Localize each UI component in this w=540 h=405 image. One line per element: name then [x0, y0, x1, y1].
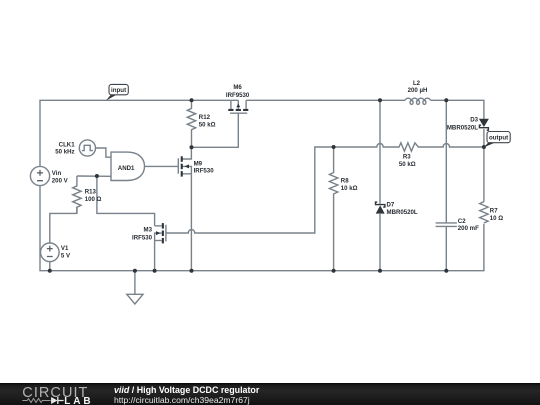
- wire top rail right (M6 drain to D3 corner): [246, 99, 405, 101]
- junction dots: [190, 98, 194, 102]
- transistor M3 stubs: [155, 225, 162, 227]
- wire top rail after L2: [431, 100, 484, 119]
- transistor M3 channel bars: [162, 223, 164, 229]
- svg-text:Vin: Vin: [52, 170, 62, 177]
- svg-text:R7: R7: [490, 208, 498, 215]
- svg-text:LAB: LAB: [64, 396, 93, 405]
- wire V1 bottom: [49, 262, 51, 271]
- svg-text:IRF530: IRF530: [132, 235, 153, 242]
- svg-text:MBR0520L: MBR0520L: [447, 124, 478, 131]
- svg-text:10 kΩ: 10 kΩ: [341, 185, 358, 192]
- svg-text:50 kHz: 50 kHz: [55, 149, 74, 156]
- wire output node to R7: [483, 147, 485, 202]
- svg-text:M3: M3: [144, 227, 153, 234]
- svg-text:50 kΩ: 50 kΩ: [399, 161, 416, 168]
- svg-text:R3: R3: [403, 153, 411, 160]
- input flag: [106, 84, 128, 100]
- diode D3 schottky bar: [479, 125, 488, 130]
- svg-text:C2: C2: [458, 218, 466, 225]
- wire D3 lead to output node: [483, 129, 485, 147]
- svg-text:D7: D7: [387, 202, 395, 209]
- svg-text:R13: R13: [85, 189, 97, 196]
- svg-text:50 kΩ: 50 kΩ: [199, 122, 216, 129]
- svg-text:200 µH: 200 µH: [408, 87, 428, 94]
- voltage source Vin: [30, 166, 49, 185]
- output flag: [484, 132, 510, 148]
- transistor M9 channel bars: [181, 156, 183, 162]
- diode D3 triangle: [479, 119, 489, 127]
- wire D7 vertical top: [379, 100, 381, 204]
- svg-text:200 mF: 200 mF: [458, 225, 479, 232]
- AND gate AND1 body: [111, 152, 145, 180]
- wire M9 drain node to M6 gate: [192, 113, 239, 147]
- resistor R13 zigzag: [73, 176, 81, 213]
- wire R13 top to AND1 lower input: [77, 175, 111, 177]
- svg-text:100 Ω: 100 Ω: [85, 196, 102, 203]
- circuitlab logo: [0, 383, 110, 405]
- wire D7 vertical bottom: [379, 214, 381, 271]
- resistor R3 with wire and hops: [334, 143, 484, 151]
- resistor R12: [187, 100, 195, 147]
- inductor L2: [405, 98, 431, 100]
- transistor M6 body arrow: [236, 104, 240, 108]
- svg-text:IRF9530: IRF9530: [226, 92, 250, 99]
- wire V1 top to R13 bottom: [50, 207, 77, 243]
- wire C2 vertical bottom: [445, 227, 447, 271]
- wire CLK1 to AND1 upper input: [96, 148, 112, 157]
- transistor M9 body arrow: [185, 164, 189, 168]
- svg-text:MBR0520L: MBR0520L: [387, 209, 418, 216]
- svg-text:M6: M6: [233, 84, 242, 91]
- transistor M6 stubs: [230, 100, 232, 109]
- svg-text:output: output: [489, 135, 508, 142]
- dark parts: [48, 98, 489, 272]
- capacitor C2 plates: [436, 222, 457, 224]
- wire node down to M3 drain: [97, 176, 155, 226]
- resistor R7: [480, 202, 488, 223]
- source Vin plus/minus: [37, 170, 53, 257]
- svg-text:R8: R8: [341, 178, 349, 185]
- transistor M9 gate bar: [177, 158, 179, 173]
- ground symbol: [134, 271, 136, 295]
- transistor M6 channel bars: [228, 109, 233, 111]
- svg-text:L2: L2: [413, 80, 421, 87]
- svg-text:10 Ω: 10 Ω: [490, 215, 503, 222]
- footer bar: [0, 383, 540, 405]
- svg-text:D3: D3: [470, 117, 478, 124]
- diode D7 triangle: [376, 205, 385, 213]
- svg-text:M9: M9: [194, 160, 203, 167]
- wire top rail left (Vin top to M6 source/body): [40, 100, 238, 166]
- svg-text:200 V: 200 V: [52, 177, 69, 184]
- svg-text:IRF530: IRF530: [194, 168, 215, 175]
- clock source CLK1: [79, 140, 95, 156]
- svg-text:5 V: 5 V: [61, 253, 71, 260]
- transistor M3 gate bar: [165, 225, 167, 242]
- wire left rail down (Vin bottom to bottom rail): [40, 186, 484, 271]
- transistor M3 body arrow: [156, 231, 160, 235]
- transistor M9 stubs: [182, 147, 191, 159]
- source V1 plus/minus: [47, 246, 53, 257]
- svg-text:AND1: AND1: [118, 165, 135, 172]
- transistor M6 gate bar: [230, 112, 247, 114]
- wire C2 vertical top: [445, 100, 447, 222]
- svg-text:V1: V1: [61, 245, 69, 252]
- diode D7 schottky bar: [376, 202, 385, 207]
- wire M3 gate to R8 node with hop: [166, 147, 334, 233]
- svg-text:R12: R12: [199, 114, 211, 121]
- resistor R8: [329, 147, 337, 271]
- svg-text:input: input: [111, 87, 126, 94]
- clock waveform glyph: [82, 145, 93, 150]
- svg-text:CLK1: CLK1: [59, 141, 76, 148]
- wire AND1 output to M9 gate: [145, 165, 179, 167]
- voltage source V1: [41, 243, 60, 262]
